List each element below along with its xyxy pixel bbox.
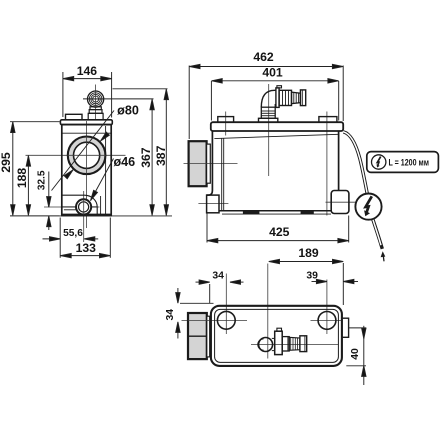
right tab xyxy=(342,318,349,337)
fitting end cap xyxy=(300,336,307,352)
body bottom thick base xyxy=(62,214,111,217)
leader o80 xyxy=(52,111,115,191)
elbow nub xyxy=(277,86,282,88)
centerline horizontal small circle xyxy=(44,206,100,208)
elbow horizontal pipe xyxy=(279,90,291,105)
right bracket xyxy=(331,191,349,214)
tank left wall xyxy=(207,131,213,195)
lightning bolt xyxy=(366,196,372,212)
inner vertical line right xyxy=(105,126,107,215)
dim 146 line xyxy=(63,78,112,80)
dim 188 xyxy=(27,156,29,216)
body inner xyxy=(215,309,339,362)
LABEL BOX xyxy=(367,152,439,173)
inlet big circle outer xyxy=(68,137,106,175)
svg-text:367: 367 xyxy=(139,147,153,168)
fitting neck lines xyxy=(272,337,275,339)
left foot xyxy=(207,195,219,213)
fitting barb xyxy=(289,337,300,350)
lid tab right xyxy=(319,117,337,123)
dim 40 ref bottom xyxy=(346,365,366,367)
bottom block flange xyxy=(207,316,210,357)
FRONT VIEW GROUP xyxy=(26,85,126,243)
right tab/bracket centerline xyxy=(326,112,328,216)
svg-text:ø46: ø46 xyxy=(113,155,135,169)
inner vertical line right short xyxy=(100,196,102,215)
dim 34 left ref top xyxy=(180,302,214,304)
svg-text:146: 146 xyxy=(77,64,98,78)
svg-text:32.5: 32.5 xyxy=(36,170,47,190)
panel shelf line xyxy=(64,209,76,211)
left tab centerline xyxy=(225,112,227,136)
svg-text:387: 387 xyxy=(154,145,168,166)
left hole v centerline xyxy=(225,274,227,335)
baseline ext xyxy=(60,215,173,217)
dim 146 ext lines xyxy=(62,72,64,117)
dim 387 xyxy=(165,89,167,215)
right hole xyxy=(318,312,336,330)
BOTTOM VIEW DIMENSIONS xyxy=(176,259,366,385)
dim 39 outside arrows xyxy=(312,281,327,283)
BOTTOM VIEW TEXTS xyxy=(165,246,361,360)
lid seam line xyxy=(62,132,111,134)
svg-text:188: 188 xyxy=(15,168,29,189)
bottom-left panel xyxy=(62,195,97,214)
left hole xyxy=(217,311,235,329)
inlet centerline overlay xyxy=(189,162,211,164)
panel mid lines xyxy=(62,206,76,208)
svg-text:462: 462 xyxy=(253,50,274,64)
tank right wall xyxy=(338,131,340,191)
right bracket centerline xyxy=(326,201,357,203)
leader o46 xyxy=(91,159,114,201)
dim 295 xyxy=(12,122,14,215)
fitting v centerline xyxy=(267,264,269,359)
tank top slant seam xyxy=(214,134,338,138)
dim 34 top left ext xyxy=(209,284,211,304)
svg-text:34: 34 xyxy=(212,271,224,282)
fitting h centerline xyxy=(251,343,338,345)
fitting inner arc xyxy=(258,339,264,350)
holes h centerline right xyxy=(311,319,342,321)
label circle xyxy=(372,155,386,169)
knob neck xyxy=(90,107,101,110)
FRONT VIEW TEXTS xyxy=(0,64,139,255)
right hole v centerline xyxy=(326,280,328,335)
holes h centerline left xyxy=(182,319,248,321)
tank inner wall double line xyxy=(221,138,223,210)
dim 367 xyxy=(151,99,153,215)
dim 40 ref top xyxy=(349,327,367,329)
drain small circle outer xyxy=(76,199,91,214)
label bolt xyxy=(377,157,380,166)
svg-text:L = 1200 мм: L = 1200 мм xyxy=(389,157,430,167)
body outer xyxy=(211,306,342,366)
svg-text:425: 425 xyxy=(269,225,290,239)
dim 462 xyxy=(188,66,190,140)
tank bottom line xyxy=(219,210,331,212)
inlet centerline xyxy=(184,162,238,164)
cable outer xyxy=(343,132,367,194)
dim 133 xyxy=(109,218,111,258)
SIDE VIEW TEXTS xyxy=(139,50,290,239)
svg-text:189: 189 xyxy=(298,246,319,260)
SIDE VIEW GROUP xyxy=(184,84,357,216)
dim 32.5 outside arrows xyxy=(48,172,50,208)
lid tab xyxy=(66,114,83,120)
svg-text:40: 40 xyxy=(350,348,361,360)
svg-text:55,6: 55,6 xyxy=(63,228,83,239)
fitting collar xyxy=(275,331,283,354)
elbow vertical ribbed pipe xyxy=(261,107,275,118)
centerline vertical small circle xyxy=(83,191,85,242)
svg-text:39: 39 xyxy=(306,270,318,281)
block centerline overlay xyxy=(188,319,210,321)
CABLE xyxy=(343,132,385,261)
elbow base flange xyxy=(259,118,278,122)
big circle crosshair overlay xyxy=(68,154,106,156)
elbow centerline xyxy=(268,84,270,176)
inlet big circle gray ring xyxy=(71,139,103,171)
small circle crosshair overlay xyxy=(83,199,85,214)
dim 55,6 outside arrows xyxy=(43,238,61,240)
dim 34 left vertical outside arrows xyxy=(177,288,179,303)
bottom gray block xyxy=(188,313,207,359)
centerline horizontal big circle xyxy=(26,154,126,156)
left foot centerline xyxy=(198,202,228,204)
inlet big circle inner xyxy=(74,142,100,168)
drain small circle inner xyxy=(79,202,89,212)
fitting pipe xyxy=(282,337,289,351)
elbow end cap xyxy=(300,90,305,106)
svg-text:401: 401 xyxy=(262,65,283,79)
bottom block seam xyxy=(188,335,207,337)
fitting nub xyxy=(277,328,282,331)
FRONT VIEW DIMENSIONS xyxy=(10,72,114,258)
elbow barb xyxy=(292,92,301,104)
dim 401 xyxy=(210,81,212,121)
svg-text:34: 34 xyxy=(165,309,176,321)
lightning circle xyxy=(355,194,381,220)
elbow bend xyxy=(261,90,276,107)
dim 425 xyxy=(206,213,208,242)
fitting circle xyxy=(259,338,273,352)
underside recessed line xyxy=(222,213,331,215)
svg-text:133: 133 xyxy=(76,241,97,255)
elbow flange ring xyxy=(276,88,279,108)
knob crosshair overlay xyxy=(87,98,103,100)
dim 34 top outside arrows xyxy=(196,281,210,283)
centerline vertical knob xyxy=(95,85,97,121)
SIDE VIEW DIMENSIONS xyxy=(60,64,349,243)
tank lid xyxy=(211,122,343,131)
centerline vertical big circle xyxy=(86,121,88,228)
dim 55,6 ext xyxy=(59,218,61,258)
knob circles (discharge elbow front) xyxy=(88,91,104,107)
dim 189 xyxy=(269,261,344,263)
svg-text:ø80: ø80 xyxy=(117,104,139,118)
BOTTOM VIEW GROUP xyxy=(182,264,349,366)
body outline xyxy=(62,125,111,216)
underside pad left xyxy=(243,211,260,214)
dim 40 xyxy=(363,326,365,385)
inlet gray block xyxy=(189,141,207,186)
inlet flange xyxy=(207,144,211,183)
cable end arrow xyxy=(382,255,385,261)
label box rect xyxy=(367,152,439,173)
underside pad right xyxy=(301,211,314,214)
lid tab left xyxy=(218,117,234,123)
svg-text:295: 295 xyxy=(0,152,13,173)
lid xyxy=(60,120,112,125)
